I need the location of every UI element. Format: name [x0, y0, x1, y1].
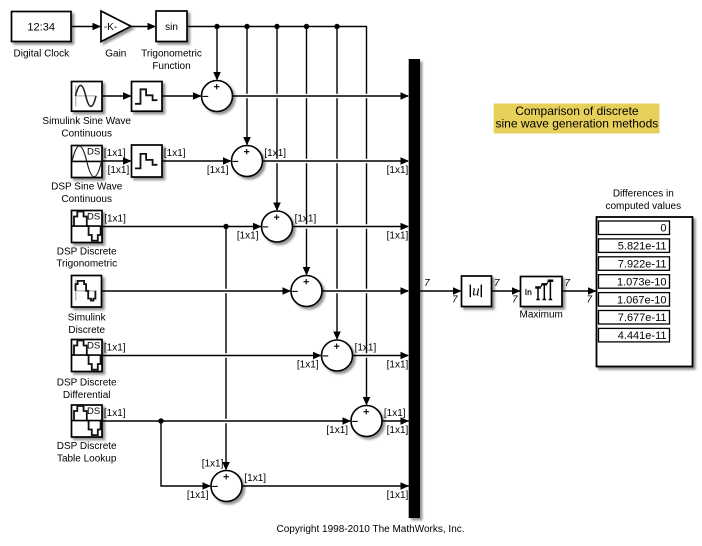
label Simulink Sine Wave Continuous — [42, 116, 131, 139]
svg-text:u: u — [472, 283, 480, 299]
sum Sum3 — [262, 211, 293, 242]
label DSP Discrete Trigonometric — [56, 246, 117, 269]
svg-text:7: 7 — [512, 295, 518, 306]
svg-text:7: 7 — [565, 278, 571, 289]
svg-text:Differential: Differential — [63, 390, 111, 401]
svg-text:Copyright 1998-2010 The MathWo: Copyright 1998-2010 The MathWorks, Inc. — [276, 524, 464, 535]
svg-text:4.441e-11: 4.441e-11 — [618, 330, 667, 342]
svg-text:7.677e-11: 7.677e-11 — [618, 312, 667, 324]
svg-text:1.073e-10: 1.073e-10 — [617, 276, 667, 288]
wire DSP Discrete Differential to Sum5 — [102, 352, 322, 360]
sum Sum6 — [351, 406, 382, 437]
svg-text:sin: sin — [165, 22, 178, 33]
junction dot branch3 — [274, 24, 279, 29]
label DSP Sine Wave Continuous — [51, 182, 123, 205]
svg-text:[1x1]: [1x1] — [104, 148, 126, 159]
junction dot branch4 — [304, 24, 309, 29]
svg-text:DSP Discrete: DSP Discrete — [57, 378, 117, 389]
wire sin output top bus — [187, 26, 367, 28]
svg-text:Trigonometric: Trigonometric — [141, 49, 202, 60]
wire Sum4 to Mux — [322, 287, 409, 295]
svg-text:1.067e-10: 1.067e-10 — [617, 294, 667, 306]
wire branch to Sum7 plus — [222, 227, 230, 471]
svg-text:DSP Sine Wave: DSP Sine Wave — [51, 182, 123, 193]
wire Sum2 to Mux — [263, 157, 410, 165]
label DSP Discrete Differential — [57, 378, 117, 401]
svg-text:[1x1]: [1x1] — [207, 165, 229, 176]
block DSP Discrete Differential — [72, 340, 103, 372]
svg-text:[1x1]: [1x1] — [244, 473, 266, 484]
block DSP Sine Wave — [72, 146, 103, 178]
junction dot row6 branch to Sum7 — [158, 418, 163, 423]
wire Gain to Trigonometric Function — [131, 23, 156, 31]
wire Maximum to Display — [562, 287, 597, 295]
block Display — [597, 217, 693, 367]
block DSP Discrete Table Lookup — [72, 405, 103, 437]
sum Sum2 — [232, 146, 263, 177]
svg-text:7: 7 — [424, 278, 430, 289]
label Simulink Discrete — [68, 313, 107, 336]
wire branch to Sum3 — [273, 27, 281, 212]
svg-text:[1x1]: [1x1] — [387, 490, 409, 501]
wire branch row6 to Sum7 minus — [161, 421, 211, 490]
svg-text:Trigonometric: Trigonometric — [56, 259, 117, 270]
svg-text:[1x1]: [1x1] — [387, 165, 409, 176]
label DSP Discrete Table Lookup — [57, 441, 117, 464]
svg-text:7: 7 — [586, 295, 592, 306]
wire Digital Clock to Gain — [71, 23, 101, 31]
svg-text:Function: Function — [152, 61, 190, 72]
block Abs — [462, 276, 492, 307]
label Differences in computed values — [605, 189, 681, 212]
wire branch to Sum2 — [243, 27, 251, 146]
wire Sine Wave to ZOH1 — [102, 92, 132, 100]
svg-text:[1x1]: [1x1] — [387, 425, 409, 436]
block Gain — [101, 11, 131, 42]
svg-text:[1x1]: [1x1] — [387, 360, 409, 371]
svg-text:[1x1]: [1x1] — [264, 148, 286, 159]
block Zero-Order Hold 2 — [132, 145, 163, 177]
sum Sum1 — [202, 81, 233, 112]
svg-text:0: 0 — [660, 223, 666, 235]
svg-text:[1x1]: [1x1] — [355, 343, 377, 354]
wire Sum7 to Mux — [242, 482, 409, 490]
sum Sum7 — [211, 471, 242, 502]
block Digital Clock — [12, 12, 72, 42]
svg-text:[1x1]: [1x1] — [384, 408, 406, 419]
wire Sum5 to Mux — [353, 352, 410, 360]
svg-text:DS: DS — [87, 146, 100, 157]
svg-text:In: In — [525, 287, 532, 297]
svg-text:Gain: Gain — [105, 49, 126, 60]
svg-text:[1x1]: [1x1] — [202, 458, 224, 469]
wire Abs to Maximum — [492, 287, 521, 295]
wire ZOH2 to Sum2 — [162, 157, 232, 165]
svg-text:[1x1]: [1x1] — [108, 165, 130, 176]
svg-text:12:34: 12:34 — [27, 22, 55, 34]
annotation Comparison of discrete sine wave generation methods — [494, 104, 660, 134]
svg-text:7: 7 — [452, 295, 458, 306]
svg-text:[1x1]: [1x1] — [104, 214, 126, 225]
svg-text:computed values: computed values — [605, 201, 681, 212]
wire Sum1 to Mux — [233, 92, 410, 100]
wire ZOH1 to Sum1 — [162, 92, 202, 100]
svg-text:[1x1]: [1x1] — [104, 343, 126, 354]
wire branch to Sum5 — [333, 27, 341, 341]
svg-text:[1x1]: [1x1] — [295, 214, 317, 225]
svg-text:sine wave generation methods: sine wave generation methods — [496, 117, 659, 131]
wire branch to Sum4 — [303, 27, 311, 276]
svg-text:[1x1]: [1x1] — [104, 408, 126, 419]
wire branch to Sum1 — [213, 27, 221, 81]
svg-text:7.922e-11: 7.922e-11 — [618, 259, 667, 271]
svg-text:Simulink: Simulink — [68, 313, 107, 324]
svg-text:DSP Discrete: DSP Discrete — [57, 441, 117, 452]
svg-text:DS: DS — [87, 211, 100, 222]
block Zero-Order Hold 1 — [132, 82, 163, 112]
sum Sum5 — [322, 340, 353, 371]
svg-text:5.821e-11: 5.821e-11 — [618, 241, 667, 253]
junction dot branch2 — [244, 24, 249, 29]
svg-text:Simulink Sine Wave: Simulink Sine Wave — [42, 116, 131, 127]
svg-text:-K-: -K- — [104, 22, 117, 33]
svg-text:Maximum: Maximum — [520, 310, 563, 321]
wire DSP Sine Wave to ZOH2 — [102, 157, 132, 165]
wire Sum3 to Mux — [293, 223, 410, 231]
svg-text:DS: DS — [87, 340, 100, 351]
block Simulink Discrete — [72, 276, 102, 308]
svg-text:Digital Clock: Digital Clock — [14, 49, 71, 60]
wire Mux to Abs — [420, 287, 462, 295]
svg-text:Continuous: Continuous — [61, 194, 112, 205]
svg-text:Differences in: Differences in — [613, 189, 674, 200]
junction dot branch5 — [334, 24, 339, 29]
block Trigonometric Function — [156, 11, 187, 42]
block Maximum — [521, 277, 563, 307]
svg-text:[1x1]: [1x1] — [164, 148, 186, 159]
sum Sum4 — [291, 276, 322, 307]
svg-text:[1x1]: [1x1] — [237, 231, 259, 242]
svg-text:DS: DS — [87, 406, 100, 417]
svg-text:[1x1]: [1x1] — [297, 360, 319, 371]
svg-text:Continuous: Continuous — [61, 129, 112, 140]
svg-text:7: 7 — [494, 278, 500, 289]
junction dot branch1 — [214, 24, 219, 29]
wire branch to Sum6 — [363, 27, 371, 406]
wire DSP Discrete Trigonometric to Sum3 — [102, 223, 262, 231]
mux Mux — [409, 59, 420, 518]
svg-text:[1x1]: [1x1] — [387, 231, 409, 242]
wire DSP Discrete Table Lookup to Sum6 — [102, 417, 351, 425]
svg-text:Table Lookup: Table Lookup — [57, 453, 117, 464]
junction dot row3 branch to Sum7 — [223, 224, 228, 229]
svg-text:Discrete: Discrete — [68, 325, 105, 336]
wire Sum6 to Mux — [382, 417, 409, 425]
block Simulink Sine Wave Continuous — [72, 82, 103, 112]
svg-text:[1x1]: [1x1] — [326, 425, 348, 436]
block DSP Discrete Trigonometric — [72, 211, 103, 243]
svg-text:[1x1]: [1x1] — [187, 490, 209, 501]
label Trigonometric Function — [141, 49, 202, 72]
wire Simulink Discrete to Sum4 — [102, 287, 292, 295]
svg-text:DSP Discrete: DSP Discrete — [57, 246, 117, 257]
